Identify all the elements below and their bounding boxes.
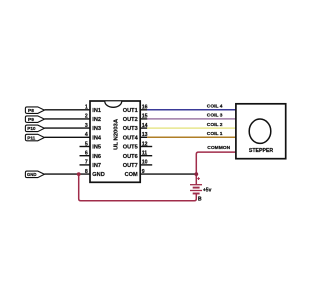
connector GND (25, 171, 44, 178)
svg-text:COM: COM (125, 172, 138, 178)
wire OUT2 to stepper (COIL 3, purple) (140, 118, 236, 120)
svg-text:8: 8 (85, 169, 88, 175)
wire P11 to IN4 pin 4 (44, 136, 90, 138)
svg-text:12: 12 (142, 141, 148, 147)
svg-text:2: 2 (85, 114, 88, 120)
wire P10 to IN3 pin 3 (44, 127, 90, 129)
svg-text:B: B (198, 197, 202, 203)
wire GND to pin 8 (44, 173, 90, 175)
svg-text:IN6: IN6 (92, 154, 101, 160)
wire COM pin 9 to battery positive (140, 173, 196, 175)
svg-text:COIL 1: COIL 1 (207, 131, 223, 137)
svg-text:5: 5 (85, 141, 88, 147)
svg-text:P8: P8 (28, 108, 34, 114)
svg-text:GND: GND (27, 172, 37, 177)
svg-text:IN2: IN2 (92, 117, 101, 123)
svg-text:P11: P11 (27, 135, 35, 140)
svg-text:IN5: IN5 (92, 145, 101, 151)
pin 6 stub (80, 151, 91, 157)
svg-text:OUT2: OUT2 (123, 117, 138, 123)
svg-text:+5v: +5v (203, 188, 212, 194)
wire OUT4 to stepper (COIL 1, orange) (140, 136, 236, 138)
svg-text:IN4: IN4 (92, 135, 102, 141)
svg-text:COIL 4: COIL 4 (207, 104, 223, 110)
svg-text:UL N2003A: UL N2003A (114, 118, 120, 150)
svg-text:1: 1 (85, 105, 88, 111)
svg-text:3: 3 (85, 123, 88, 129)
svg-text:7: 7 (85, 160, 88, 166)
svg-text:11: 11 (142, 151, 148, 157)
svg-text:COMMON: COMMON (207, 145, 230, 151)
svg-text:OUT3: OUT3 (123, 126, 138, 132)
battery B (190, 177, 202, 193)
pin 7 stub (80, 160, 91, 166)
wire OUT1 to stepper (COIL 4, blue) (140, 109, 236, 111)
svg-text:OUT7: OUT7 (123, 163, 138, 169)
wire battery - to GND junction (79, 174, 197, 201)
svg-text:P10: P10 (27, 126, 36, 131)
svg-text:IN1: IN1 (92, 108, 101, 114)
stepper motor M1 (236, 104, 286, 159)
svg-text:GND: GND (92, 172, 104, 178)
svg-text:OUT6: OUT6 (123, 154, 138, 160)
wire OUT3 to stepper (COIL 2, yellow) (140, 127, 236, 129)
connector P9 (25, 116, 44, 123)
svg-text:OUT5: OUT5 (123, 145, 138, 151)
wire P9 to IN2 pin 2 (44, 118, 90, 120)
junction COM / battery + (194, 172, 198, 176)
connector P10 (25, 125, 44, 132)
svg-text:P9: P9 (28, 117, 34, 123)
svg-text:4: 4 (85, 132, 88, 138)
net COMMON wire (battery + up to stepper) (196, 152, 236, 185)
svg-text:10: 10 (142, 160, 148, 166)
svg-text:COIL 2: COIL 2 (207, 122, 223, 128)
svg-text:OUT4: OUT4 (123, 135, 139, 141)
svg-text:COIL 3: COIL 3 (207, 113, 223, 119)
pin 12 stub (140, 141, 152, 147)
svg-text:IN3: IN3 (92, 126, 101, 132)
wire P8 to IN1 pin 1 (44, 109, 90, 111)
svg-text:6: 6 (85, 151, 88, 157)
IC U1 ULN2003A (90, 101, 140, 182)
connector P11 (25, 134, 44, 141)
pin 10 stub (140, 160, 152, 166)
pin 5 stub (80, 141, 91, 147)
svg-text:IN7: IN7 (92, 163, 101, 169)
svg-text:OUT1: OUT1 (123, 108, 138, 114)
connector P8 (25, 107, 44, 114)
pin 11 stub (140, 151, 152, 157)
junction GND pin 8 (77, 172, 81, 176)
svg-text:STEPPER: STEPPER (249, 148, 273, 154)
